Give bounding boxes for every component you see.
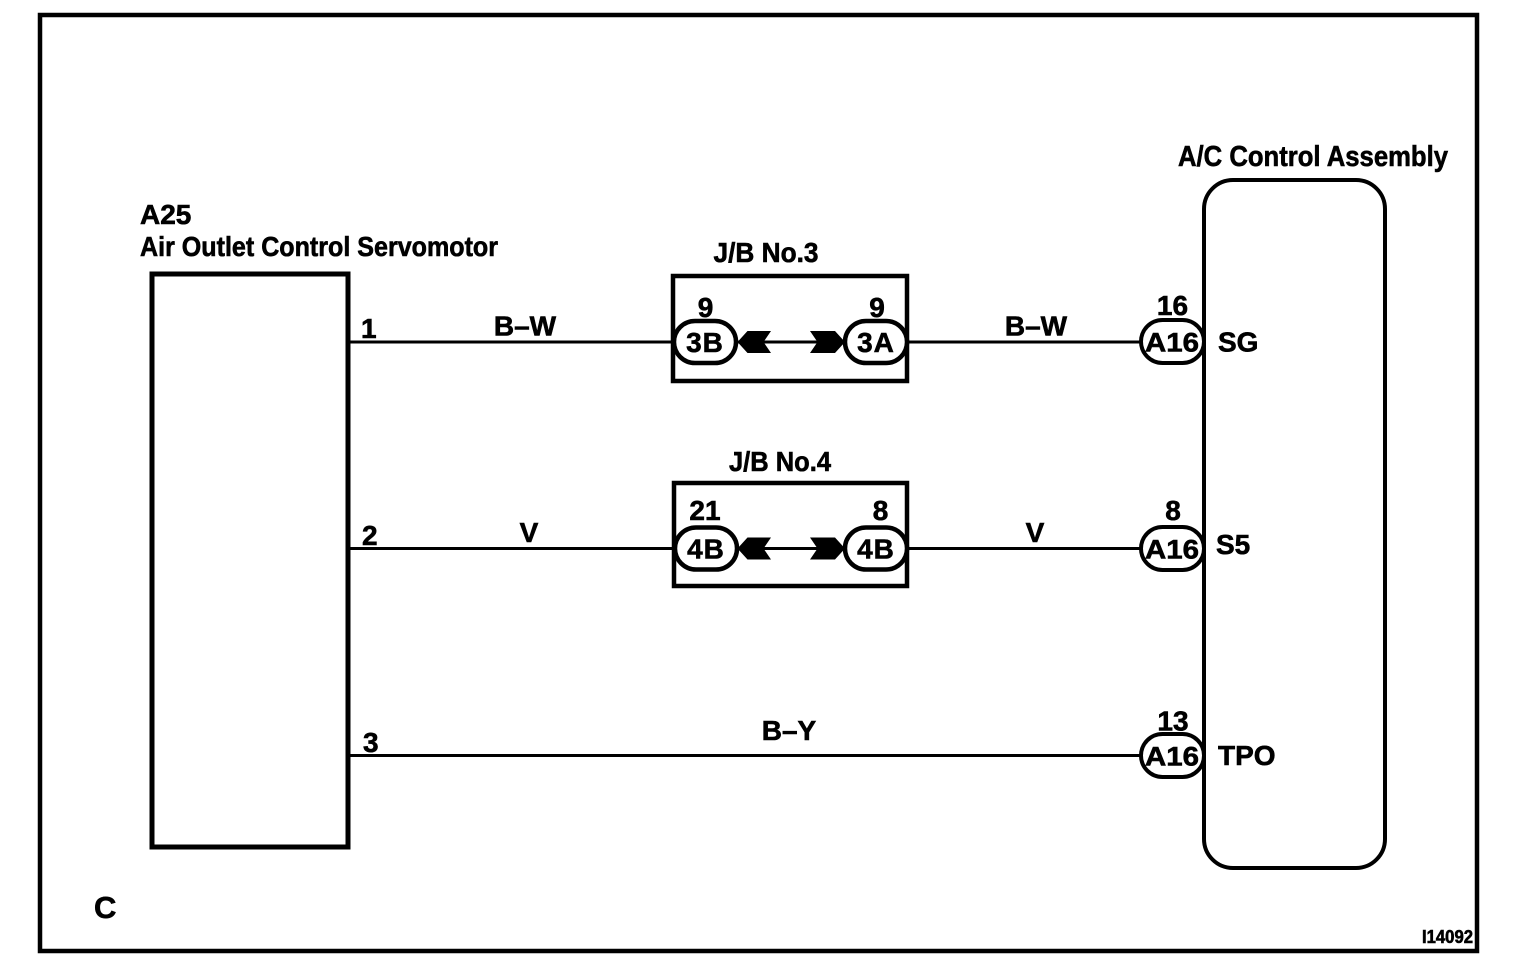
svg-text:A16: A16 [1145,328,1199,358]
svg-text:V: V [520,517,539,548]
svg-text:SG: SG [1218,327,1258,358]
svg-text:J/B No.3: J/B No.3 [714,237,819,268]
svg-text:C: C [94,890,116,925]
svg-text:A16: A16 [1145,535,1199,565]
svg-text:V: V [1026,517,1045,548]
svg-text:2: 2 [362,520,378,551]
svg-text:B–W: B–W [1005,311,1068,342]
svg-text:4B: 4B [857,534,895,565]
svg-text:8: 8 [1165,495,1181,526]
svg-text:A/C Control Assembly: A/C Control Assembly [1178,141,1448,173]
svg-text:4B: 4B [687,534,725,565]
svg-text:3: 3 [363,727,379,758]
svg-text:9: 9 [698,292,714,323]
svg-text:J/B No.4: J/B No.4 [729,446,831,477]
svg-text:B–Y: B–Y [762,715,817,746]
svg-text:9: 9 [869,292,885,323]
svg-text:1: 1 [361,313,377,344]
svg-text:8: 8 [873,495,889,526]
svg-text:3A: 3A [857,327,895,358]
svg-text:13: 13 [1157,706,1188,737]
svg-text:A25: A25 [140,199,191,230]
svg-text:3B: 3B [686,327,724,358]
svg-text:A16: A16 [1145,742,1199,772]
svg-text:16: 16 [1157,290,1188,321]
svg-text:S5: S5 [1216,529,1250,560]
svg-text:21: 21 [689,495,720,526]
svg-text:I14092: I14092 [1422,927,1473,947]
svg-text:Air Outlet Control Servomotor: Air Outlet Control Servomotor [140,231,498,262]
svg-text:B–W: B–W [494,311,557,342]
svg-text:TPO: TPO [1218,740,1276,771]
